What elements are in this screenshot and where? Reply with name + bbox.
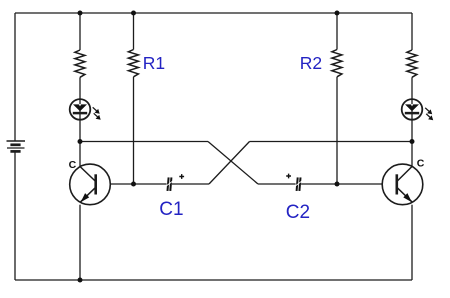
resistor R2 — [332, 50, 342, 77]
wire right rail top (to LED2 resistor) — [411, 13, 413, 50]
capacitor C1 — [166, 174, 185, 191]
LED D1 — [70, 99, 101, 120]
node collector Q2 — [410, 139, 415, 144]
svg-text:C: C — [417, 157, 425, 169]
wire collector node Q1 into transistor — [79, 142, 81, 167]
node base Q2 / R2 — [335, 182, 340, 187]
svg-text:C: C — [69, 159, 77, 171]
wire Q1 emitter to bottom rail — [79, 205, 81, 280]
wire Q1 base to C1 — [110, 183, 166, 185]
wire collector node Q2 into transistor — [411, 142, 413, 167]
wire diagonal base1-side to collector2 rail — [209, 142, 250, 185]
wire R2 top lead — [336, 13, 338, 50]
wire collector Q2 rail (upper right horizontal) — [250, 141, 413, 143]
wire C1 to cross-coupling diagonal — [172, 183, 209, 185]
wire diagonal collector1 to base2 side — [208, 142, 258, 185]
resistor (LED2 series, unlabeled) — [407, 50, 417, 77]
wire left rail lower (battery negative lead) — [14, 151, 16, 280]
wire R2 bottom lead to base node — [336, 77, 338, 184]
wire resistor to LED2 — [411, 77, 413, 141]
wire R1 bottom lead to base node — [133, 77, 135, 184]
svg-text:C2: C2 — [286, 202, 310, 223]
transistor Q1 — [70, 164, 111, 205]
node collector Q1 — [78, 139, 83, 144]
wire collector Q1 rail (upper left horizontal) — [80, 141, 208, 143]
wire left rail upper (battery positive lead) — [14, 13, 16, 141]
node base Q1 / R1 — [131, 182, 136, 187]
capacitor C2 — [286, 174, 302, 191]
node top R2 branch — [335, 11, 340, 16]
wire bottom rail — [15, 279, 412, 281]
wire resistor to LED1 — [79, 77, 81, 141]
battery B1 — [7, 141, 26, 151]
svg-text:R2: R2 — [300, 53, 322, 73]
wire top rail — [15, 12, 412, 14]
resistor (LED1 series, unlabeled) — [75, 50, 85, 77]
svg-text:C1: C1 — [159, 199, 183, 220]
node emitter Q1 / bottom rail — [78, 278, 83, 283]
node top LED1 branch — [78, 11, 83, 16]
svg-text:R1: R1 — [143, 53, 165, 73]
wire LED1 branch top lead — [79, 13, 81, 50]
wire R1 top lead — [133, 13, 135, 50]
wire diagonal end to C2 — [258, 183, 296, 185]
wire Q2 emitter to bottom rail — [411, 205, 413, 280]
node top R1 branch — [131, 11, 136, 16]
LED D2 — [402, 99, 434, 120]
resistor R1 — [128, 50, 138, 77]
wire C2 to Q2 base — [301, 183, 382, 185]
transistor Q2 — [382, 164, 423, 205]
